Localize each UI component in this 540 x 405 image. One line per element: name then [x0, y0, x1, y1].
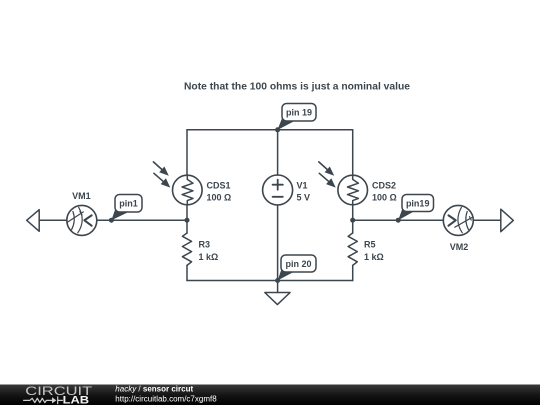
CDS1 light arrow 2 [154, 173, 170, 187]
svg-text:http://circuitlab.com/c7xgmf8: http://circuitlab.com/c7xgmf8 [115, 395, 217, 404]
CDS2 light arrow 1 [319, 162, 334, 176]
wire VM2 to right port [473, 219, 501, 221]
footer bar [0, 385, 540, 405]
wire R3 bottom lead [186, 265, 188, 280]
svg-text:R3: R3 [199, 239, 211, 249]
wire bottom rail [187, 280, 353, 282]
port terminal right [501, 209, 514, 232]
svg-text:1 kΩ: 1 kΩ [199, 252, 219, 262]
VM2 needle [455, 218, 472, 228]
wire CDS1 top lead [186, 130, 188, 175]
wire CDS2 bottom lead to R5 [352, 205, 354, 233]
CDS1 light arrow 1 [153, 162, 168, 176]
svg-text:V1: V1 [297, 180, 308, 190]
wire top rail [187, 129, 353, 131]
flag pin19 [398, 195, 433, 221]
wire ground stub [277, 281, 279, 293]
svg-text:LAB: LAB [63, 395, 90, 405]
flag pin 19 [277, 104, 316, 131]
node dot pin19 [396, 218, 401, 223]
R3 value labels [199, 239, 219, 261]
V1 value labels [297, 180, 311, 202]
svg-text:5 V: 5 V [297, 192, 311, 202]
voltmeter VM1 [67, 205, 97, 235]
wire VM1 to node [97, 219, 187, 221]
photoresistor CDS1 [173, 175, 203, 205]
svg-text:pin19: pin19 [406, 199, 430, 209]
voltage source V1 [263, 175, 293, 205]
R5 value labels [364, 239, 384, 261]
flag pin1 [111, 195, 142, 221]
CDS2 value labels [372, 180, 397, 202]
wire node to VM2 [353, 219, 444, 221]
svg-text:100 Ω: 100 Ω [207, 192, 232, 202]
wire CDS1 bottom lead to R3 [186, 205, 188, 233]
logo resistor-diode line [24, 397, 63, 404]
voltmeter VM2 [443, 205, 473, 235]
node junction CDS1/R3 [185, 218, 190, 223]
node junction top rail V1 [275, 127, 280, 132]
ground [265, 293, 290, 305]
photoresistor CDS2 [338, 175, 368, 205]
logo diode triangle [52, 397, 56, 403]
CDS2 light arrow 2 [319, 173, 335, 187]
svg-text:VM1: VM1 [72, 191, 91, 201]
resistor R3 [182, 233, 191, 265]
wire left port to VM1 [39, 219, 67, 221]
svg-text:hacky / sensor circut: hacky / sensor circut [115, 384, 193, 393]
svg-text:VM2: VM2 [450, 242, 469, 252]
svg-text:Note that the 100 ohms is just: Note that the 100 ohms is just a nominal… [184, 81, 410, 93]
node junction bottom rail ground [275, 278, 280, 283]
svg-text:100 Ω: 100 Ω [372, 192, 397, 202]
wire V1 top lead [277, 130, 279, 175]
svg-text:CDS2: CDS2 [372, 180, 396, 190]
wire V1 bottom lead [277, 205, 279, 281]
flag pin 20 [278, 255, 316, 280]
svg-text:CDS1: CDS1 [207, 180, 231, 190]
svg-text:1 kΩ: 1 kΩ [364, 252, 384, 262]
svg-text:pin 19: pin 19 [286, 108, 312, 118]
node junction CDS2/R5 [350, 218, 355, 223]
node dot pin1 [109, 218, 114, 223]
wire CDS2 top lead [352, 130, 354, 175]
wire R5 bottom lead [352, 265, 354, 280]
svg-text:pin 20: pin 20 [285, 259, 311, 269]
port terminal left [27, 210, 40, 232]
svg-text:R5: R5 [364, 239, 376, 249]
svg-text:pin1: pin1 [119, 199, 138, 209]
resistor R5 [348, 233, 357, 265]
CDS1 value labels [207, 180, 232, 202]
